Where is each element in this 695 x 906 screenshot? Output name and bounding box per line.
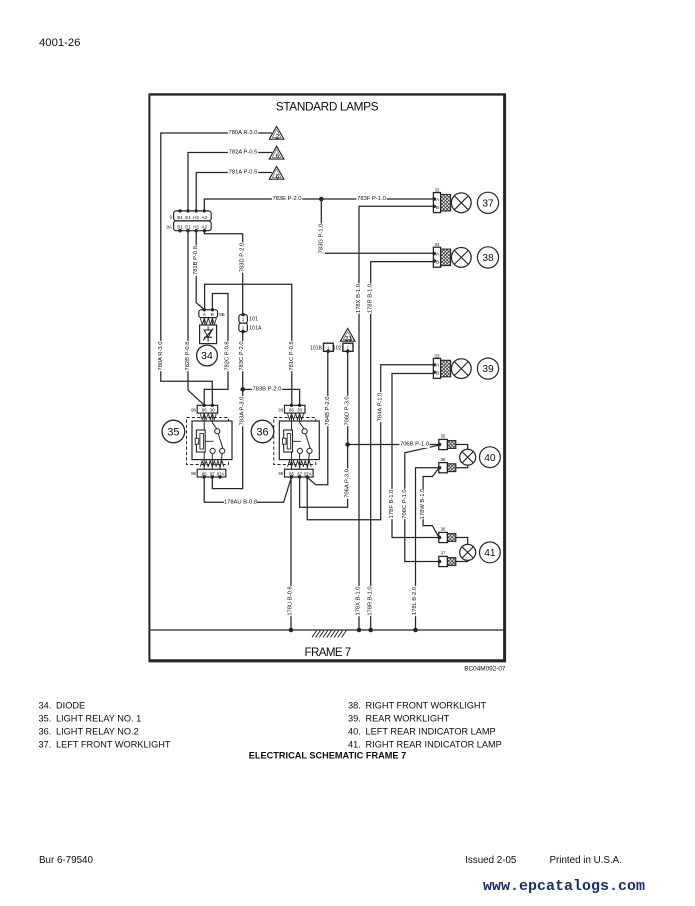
svg-text:35: 35 xyxy=(441,434,446,439)
svg-text:LEFT REAR INDICATOR LAMP: LEFT REAR INDICATOR LAMP xyxy=(366,726,496,736)
svg-text:34: 34 xyxy=(435,242,440,247)
svg-text:34.: 34. xyxy=(39,700,52,710)
lamp 40 left rear indicator: top connector xyxy=(438,434,456,450)
ground node 178L xyxy=(413,628,418,633)
wire 706A P-3.0 xyxy=(300,445,348,508)
wire label 178U B-0.8 xyxy=(287,586,294,616)
wire label 784B P-2.0 xyxy=(324,396,331,426)
svg-text:178X B-1.0: 178X B-1.0 xyxy=(356,284,362,313)
wire 784B P-2.0 xyxy=(308,351,328,484)
connector reference triangle 21 xyxy=(340,328,355,342)
svg-text:ELECTRICAL SCHEMATIC FRAME 7: ELECTRICAL SCHEMATIC FRAME 7 xyxy=(249,751,406,761)
svg-text:95: 95 xyxy=(278,471,283,476)
svg-text:780A R-3.0: 780A R-3.0 xyxy=(158,341,164,370)
wire label 178W B-1.0 xyxy=(419,489,426,520)
lamp 38 right front worklight xyxy=(433,242,499,268)
wire label 706C P-1.0 xyxy=(401,489,408,519)
svg-text:706C P-1.0: 706C P-1.0 xyxy=(402,489,408,518)
wire label 780A R-3.0 xyxy=(157,341,164,371)
svg-text:706B P-1.0: 706B P-1.0 xyxy=(400,442,429,448)
wire label 783E P-2.0 xyxy=(272,196,302,203)
wire label 706D P-3.0 xyxy=(344,396,351,426)
svg-text:FRAME 7: FRAME 7 xyxy=(304,646,350,659)
diode item circle 34 xyxy=(197,345,218,366)
wire lamp41 bottom link xyxy=(456,560,468,561)
wire label 783D P-2.0 xyxy=(239,242,246,272)
wire label 783A P-3.0 xyxy=(239,396,246,426)
svg-text:RIGHT FRONT WORKLIGHT: RIGHT FRONT WORKLIGHT xyxy=(366,700,487,710)
svg-text:Bur 6-79540: Bur 6-79540 xyxy=(39,855,93,866)
wire 783B P-2.0 xyxy=(243,389,300,405)
relay 35 (light relay no.1) xyxy=(162,404,232,479)
wire 178AU B-0.8 xyxy=(204,477,291,502)
svg-text:178R B-1.0: 178R B-1.0 xyxy=(368,284,374,313)
svg-text:A2: A2 xyxy=(201,225,207,230)
wire 783G P-1.0 xyxy=(321,199,433,253)
svg-text:178R B-1.0: 178R B-1.0 xyxy=(368,586,374,615)
svg-text:782A P-0.5: 782A P-0.5 xyxy=(229,150,258,156)
svg-text:784A P-1.0: 784A P-1.0 xyxy=(378,393,384,422)
wire label 784A P-1.0 xyxy=(377,392,384,422)
wire label 783C P-2.0 xyxy=(238,341,245,371)
wire lamp41 top link xyxy=(456,538,468,545)
svg-text:37: 37 xyxy=(441,551,446,556)
svg-text:9: 9 xyxy=(169,215,172,220)
wire 781A P-0.5 xyxy=(196,173,272,211)
svg-text:706A P-3.0: 706A P-3.0 xyxy=(345,469,351,498)
svg-text:36: 36 xyxy=(256,427,268,439)
svg-text:30: 30 xyxy=(297,408,302,413)
connector reference triangle 6a xyxy=(269,146,284,160)
svg-text:781C P-0.8: 781C P-0.8 xyxy=(289,341,295,370)
svg-text:9A: 9A xyxy=(166,225,173,230)
svg-text:6: 6 xyxy=(275,173,279,180)
wire label 178AU B-0.8 xyxy=(224,499,257,506)
ground node 178U xyxy=(289,628,294,633)
wire 782A P-0.5 xyxy=(188,153,272,211)
svg-text:RIGHT REAR INDICATOR LAMP: RIGHT REAR INDICATOR LAMP xyxy=(366,739,502,749)
wire label 178L B-2.0 xyxy=(412,586,419,616)
svg-text:B: B xyxy=(436,205,439,211)
wire 178U B-0.8 xyxy=(290,477,292,630)
wire label 706A P-3.0 xyxy=(344,468,351,498)
svg-text:35.: 35. xyxy=(39,713,52,723)
wire 783A P-3.0 xyxy=(212,389,242,488)
wire label 782B P-0.8 xyxy=(184,341,191,371)
wire label 178R B-1.0 xyxy=(367,283,374,313)
svg-text:781A P-0.5: 781A P-0.5 xyxy=(229,170,258,176)
ground bus frame 7 xyxy=(151,630,505,637)
svg-text:REAR WORKLIGHT: REAR WORKLIGHT xyxy=(366,713,450,723)
svg-text:21: 21 xyxy=(345,335,353,342)
wire label 178X B-1.0 xyxy=(355,586,362,616)
svg-text:783F P-1.0: 783F P-1.0 xyxy=(357,196,386,202)
svg-text:93: 93 xyxy=(278,407,283,412)
wire label 783F P-1.0 xyxy=(356,196,386,203)
svg-text:B1: B1 xyxy=(177,215,183,220)
svg-text:H1: H1 xyxy=(193,225,199,230)
wire 706C P-1.0 xyxy=(405,445,439,561)
svg-text:101: 101 xyxy=(249,317,258,323)
svg-text:33: 33 xyxy=(435,353,440,358)
svg-text:Issued 2-05: Issued 2-05 xyxy=(465,855,517,866)
wire label 178R B-1.0 xyxy=(367,586,374,616)
wire 783E/783F P xyxy=(204,199,433,211)
wire 706D P-3.0 xyxy=(347,351,349,444)
svg-text:101A: 101A xyxy=(249,326,262,332)
svg-text:E1: E1 xyxy=(185,215,191,220)
svg-text:32: 32 xyxy=(435,188,440,193)
svg-text:39: 39 xyxy=(482,364,494,375)
wire label 782A P-0.5 xyxy=(228,149,258,156)
svg-text:37: 37 xyxy=(482,198,494,209)
wire label 783G P-1.0 xyxy=(318,223,325,253)
wire 178F B-1.0 xyxy=(392,374,439,538)
lamp 39 rear worklight xyxy=(433,353,499,379)
svg-text:41.: 41. xyxy=(348,739,361,749)
svg-text:96: 96 xyxy=(191,471,196,476)
svg-text:780A R-3.0: 780A R-3.0 xyxy=(228,130,257,136)
junction node 783E/783F/783G xyxy=(319,197,324,202)
lamp 37 left front worklight xyxy=(433,188,499,214)
connector 101 / 101A xyxy=(239,313,262,333)
svg-text:102: 102 xyxy=(333,345,342,351)
svg-text:A2: A2 xyxy=(201,215,207,220)
svg-text:9B: 9B xyxy=(219,312,224,317)
connector 102 xyxy=(333,343,353,353)
diode 34 body xyxy=(200,325,217,344)
svg-text:783D P-2.0: 783D P-2.0 xyxy=(240,243,246,272)
svg-text:783A P-3.0: 783A P-3.0 xyxy=(240,397,246,426)
svg-text:781B P-0.8: 781B P-0.8 xyxy=(193,246,199,275)
lamp 41 right rear indicator: bottom connector xyxy=(438,551,456,567)
wire label 781A P-0.5 xyxy=(228,169,258,176)
svg-text:783E P-2.0: 783E P-2.0 xyxy=(272,196,301,202)
wire 781B P-0.8 xyxy=(196,231,204,310)
wire 706B P-1.0 xyxy=(348,444,439,446)
ground node 178X xyxy=(357,628,362,633)
svg-text:86: 86 xyxy=(202,408,207,413)
svg-text:B: B xyxy=(436,260,439,266)
svg-text:178X B-1.0: 178X B-1.0 xyxy=(356,586,362,615)
svg-text:B: B xyxy=(211,312,214,317)
svg-text:706D P-3.0: 706D P-3.0 xyxy=(345,396,351,425)
svg-text:178L B-2.0: 178L B-2.0 xyxy=(412,587,418,615)
wire 783C P-2.0 xyxy=(242,332,244,390)
svg-text:86: 86 xyxy=(289,408,294,413)
svg-text:784B P-2.0: 784B P-2.0 xyxy=(325,396,331,425)
wire 178R B-1.0 xyxy=(371,262,434,630)
diode 34 connector 9B (pins A B) xyxy=(199,308,225,325)
svg-text:178W B-1.0: 178W B-1.0 xyxy=(420,489,426,520)
lamp 40 left rear indicator: bottom connector xyxy=(438,457,456,473)
legend list xyxy=(39,700,502,749)
wire label 178F B-1.0 xyxy=(388,489,395,519)
lamp 40 bulb + item circle xyxy=(460,447,501,468)
wire label 782C P-0.8 xyxy=(224,341,231,371)
svg-text:34: 34 xyxy=(201,350,213,362)
svg-text:39.: 39. xyxy=(348,713,361,723)
svg-text:B1: B1 xyxy=(177,225,183,230)
wire 178L B-2.0 xyxy=(416,468,439,630)
svg-text:178U B-0.8: 178U B-0.8 xyxy=(288,586,294,615)
svg-text:36: 36 xyxy=(441,457,446,462)
connector 101B xyxy=(310,343,333,353)
svg-text:37.: 37. xyxy=(39,739,52,749)
connector reference triangle 6b xyxy=(269,166,284,180)
svg-text:www.epcatalogs.com: www.epcatalogs.com xyxy=(483,878,645,895)
svg-text:LIGHT RELAY NO. 1: LIGHT RELAY NO. 1 xyxy=(56,713,141,723)
wire label 781C P-0.8 xyxy=(288,341,295,371)
connector reference triangle 2 xyxy=(269,126,284,140)
wire 782B P-0.8 xyxy=(188,231,204,405)
svg-text:35: 35 xyxy=(167,427,179,439)
wire 784A P-1.0 xyxy=(307,365,433,520)
svg-text:38.: 38. xyxy=(348,700,361,710)
svg-text:40.: 40. xyxy=(348,726,361,736)
svg-text:BC04M092-07: BC04M092-07 xyxy=(464,666,506,673)
wire 178X B-1.0 xyxy=(359,206,433,630)
svg-text:782B P-0.8: 782B P-0.8 xyxy=(185,341,191,370)
wire lamp40 bottom link xyxy=(456,465,468,468)
svg-text:783G P-1.0: 783G P-1.0 xyxy=(318,224,324,254)
svg-text:4001-26: 4001-26 xyxy=(39,37,80,49)
wire label 783B P-2.0 xyxy=(252,386,282,393)
wire lamp40 top link xyxy=(456,445,468,450)
svg-text:E1: E1 xyxy=(185,225,191,230)
connector 9 / 9A (B1 E1 H1 A2) xyxy=(166,209,211,232)
svg-text:30: 30 xyxy=(210,408,215,413)
lamp 41 right rear indicator: top connector xyxy=(438,527,456,543)
schematic border frame xyxy=(149,94,507,662)
svg-text:36: 36 xyxy=(441,527,446,532)
svg-text:DIODE: DIODE xyxy=(56,700,85,710)
wire 781C P-0.8 xyxy=(205,284,292,405)
svg-text:783B P-2.0: 783B P-2.0 xyxy=(252,386,281,392)
junction node 783B xyxy=(240,387,245,392)
ground node 178R xyxy=(368,628,373,633)
svg-text:LIGHT RELAY NO.2: LIGHT RELAY NO.2 xyxy=(56,726,139,736)
wire label 781B P-0.8 xyxy=(193,245,200,275)
wire 783D P-2.0 xyxy=(204,231,242,315)
svg-text:2: 2 xyxy=(275,133,279,140)
svg-text:STANDARD LAMPS: STANDARD LAMPS xyxy=(276,99,379,113)
svg-text:LEFT FRONT WORKLIGHT: LEFT FRONT WORKLIGHT xyxy=(56,739,171,749)
junction node 706B/706D/706A xyxy=(345,442,350,447)
svg-text:178AU B-0.8: 178AU B-0.8 xyxy=(224,499,257,505)
wire label 706B P-1.0 xyxy=(399,441,429,448)
svg-text:H1: H1 xyxy=(193,215,199,220)
svg-text:178F B-1.0: 178F B-1.0 xyxy=(389,490,395,519)
svg-text:Printed in U.S.A.: Printed in U.S.A. xyxy=(550,855,622,866)
svg-text:782C P-0.8: 782C P-0.8 xyxy=(224,341,230,370)
svg-text:101B: 101B xyxy=(310,345,323,351)
svg-text:96: 96 xyxy=(191,407,196,412)
svg-text:6: 6 xyxy=(275,153,279,160)
wire 782C P-0.8 xyxy=(204,294,228,406)
svg-text:B: B xyxy=(436,371,439,377)
svg-text:36.: 36. xyxy=(39,726,52,736)
wire label 178X B-1.0 xyxy=(355,283,362,313)
svg-text:38: 38 xyxy=(482,253,494,264)
svg-text:783C P-2.0: 783C P-2.0 xyxy=(239,341,245,370)
wire label 780A R-3.0 xyxy=(228,130,258,137)
svg-text:41: 41 xyxy=(484,548,496,559)
wire 178W B-1.0 xyxy=(423,468,439,537)
relay 36 (light relay no.2) xyxy=(251,404,319,479)
wire 780A R-3.0 xyxy=(161,133,272,405)
lamp 41 bulb + item circle xyxy=(460,542,501,563)
svg-text:40: 40 xyxy=(484,453,496,464)
